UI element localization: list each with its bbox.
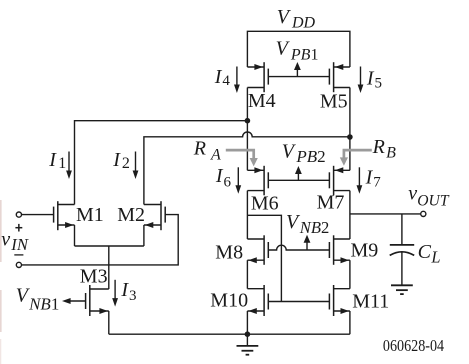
- svg-text:V: V: [282, 140, 297, 162]
- ground symbol (main): [237, 334, 259, 355]
- svg-text:M10: M10: [210, 290, 248, 312]
- wire M2 source to tail node: [143, 225, 145, 246]
- transistor M4 (PMOS current source): [247, 62, 268, 92]
- label CL: [418, 241, 441, 267]
- svg-text:C: C: [418, 241, 432, 263]
- svg-text:5: 5: [375, 76, 383, 92]
- wire M11 source to ground rail: [349, 311, 351, 334]
- svg-text:I: I: [48, 149, 57, 171]
- label I2: [112, 149, 130, 172]
- transistor M9 (NMOS cascode): [329, 235, 350, 264]
- svg-text:M1: M1: [76, 204, 104, 226]
- wire M1 gate to + input: [22, 214, 54, 216]
- svg-text:R: R: [193, 138, 206, 160]
- wire vOUT to CL: [401, 214, 403, 245]
- wire node B to M7 source: [349, 137, 351, 170]
- transistor M8 (NMOS cascode): [247, 235, 268, 264]
- label I5: [366, 68, 382, 92]
- label I6: [215, 165, 232, 191]
- minus sign: [14, 254, 23, 256]
- svg-text:v: v: [1, 228, 10, 250]
- label RA: [193, 138, 221, 164]
- current arrow I4: [234, 67, 240, 94]
- wire M10 source to ground rail: [246, 311, 248, 334]
- wire mirror-gate branch (node A2 to M10/M11 gates): [247, 215, 281, 301]
- wire M10-M11 gate line: [268, 301, 329, 303]
- svg-text:L: L: [430, 248, 440, 267]
- node B junction dot: [347, 134, 353, 140]
- current arrow I1: [66, 152, 72, 180]
- current arrow I3: [112, 280, 118, 307]
- capacitor CL: [390, 245, 415, 285]
- wire M9 source to M11 drain: [349, 260, 351, 289]
- decorative scan edge: [0, 200, 2, 364]
- svg-text:M4: M4: [248, 90, 276, 112]
- label I1: [48, 149, 66, 172]
- transistor M3 (NMOS tail current source): [86, 285, 109, 316]
- terminal vIN+: [16, 212, 21, 217]
- svg-text:A: A: [210, 146, 221, 163]
- svg-text:060628-04: 060628-04: [383, 336, 444, 355]
- svg-text:IN: IN: [10, 235, 29, 254]
- bias arrow VPB1: [294, 62, 301, 77]
- svg-text:7: 7: [373, 175, 381, 191]
- label I3: [120, 279, 136, 304]
- label vIN: [1, 228, 29, 254]
- label RB: [372, 136, 397, 162]
- wire node A to M6 source: [246, 121, 248, 171]
- wire output node to vOUT terminal: [350, 213, 421, 215]
- svg-text:OUT: OUT: [417, 193, 450, 210]
- gray arrow RA: [226, 150, 258, 166]
- ground rail: [109, 333, 350, 335]
- svg-text:I: I: [112, 149, 121, 171]
- wire M8-M9 gate line (hops over mirror branch): [268, 245, 329, 250]
- svg-text:PB2: PB2: [295, 147, 325, 166]
- svg-text:M6: M6: [251, 193, 279, 215]
- node A junction dot: [245, 118, 251, 124]
- transistor M11 (NMOS mirror): [329, 285, 350, 316]
- transistor M5 (PMOS current source): [329, 62, 350, 92]
- transistor M10 (NMOS mirror): [247, 285, 268, 316]
- ground symbol (CL): [391, 285, 413, 294]
- svg-text:M8: M8: [215, 241, 243, 263]
- wire M1 drain to node A: [75, 121, 248, 205]
- label I7: [365, 167, 382, 191]
- wire M3 source to ground rail: [108, 311, 110, 334]
- svg-text:M7: M7: [317, 191, 345, 213]
- svg-text:NB2: NB2: [299, 218, 330, 237]
- label VNB2: [286, 211, 329, 237]
- wire M1 source to tail node: [74, 225, 76, 246]
- svg-text:3: 3: [129, 288, 137, 304]
- svg-text:M5: M5: [320, 90, 348, 112]
- gray arrow RB: [340, 150, 372, 166]
- wire M4-M5 gate line: [268, 76, 329, 78]
- wire M6-M7 gate line: [268, 179, 329, 181]
- transistor M1 (NMOS input): [54, 201, 75, 230]
- transistor M2 (NMOS input): [144, 201, 165, 230]
- wire M5 drain to node B: [349, 88, 351, 138]
- ground junction dot: [245, 331, 251, 337]
- current arrow I7: [357, 167, 363, 193]
- bias arrow VNB1 (M3 gate): [62, 298, 86, 304]
- terminal vIN-: [16, 262, 21, 267]
- svg-text:2: 2: [122, 155, 130, 172]
- svg-text:B: B: [386, 145, 396, 162]
- wire M2 drain to node B (hops over left column): [144, 132, 350, 204]
- wire tail node to M3 drain: [108, 246, 110, 289]
- current arrow I2: [133, 152, 139, 180]
- svg-text:PB1: PB1: [290, 46, 319, 63]
- label I4: [214, 66, 231, 89]
- svg-text:V: V: [276, 38, 291, 60]
- wire M4 drain to node A: [246, 88, 248, 121]
- svg-text:4: 4: [222, 73, 230, 89]
- wire M8 source to M10 drain: [246, 260, 248, 289]
- current arrow I6: [235, 167, 241, 193]
- label VDD: [277, 6, 316, 32]
- terminal vOUT: [421, 211, 426, 216]
- bias arrow VNB2: [304, 235, 311, 250]
- label VNB1: [16, 285, 60, 314]
- wire M2 gate to - input: [22, 215, 179, 265]
- svg-text:NB1: NB1: [28, 294, 59, 313]
- svg-text:DD: DD: [291, 15, 316, 32]
- transistor M6 (PMOS cascode): [247, 166, 268, 196]
- svg-text:R: R: [372, 136, 385, 158]
- label VPB1: [276, 38, 319, 64]
- svg-text:M2: M2: [117, 204, 145, 226]
- svg-text:M11: M11: [352, 291, 389, 313]
- svg-text:V: V: [277, 6, 292, 28]
- wire M7 drain to M9 drain: [349, 191, 351, 239]
- bias arrow VPB2: [295, 166, 302, 180]
- transistor M7 (PMOS cascode): [329, 166, 350, 196]
- label VPB2: [282, 140, 326, 166]
- wire tail node: [75, 245, 144, 247]
- svg-text:v: v: [408, 183, 417, 205]
- plus sign: [15, 224, 22, 232]
- VDD power rail: [247, 31, 350, 67]
- svg-text:V: V: [286, 211, 301, 233]
- wire M6 drain to M8 drain: [246, 191, 248, 239]
- svg-text:1: 1: [58, 155, 66, 172]
- label vOUT: [408, 183, 450, 210]
- svg-text:M9: M9: [351, 240, 379, 262]
- svg-text:6: 6: [224, 175, 232, 191]
- svg-text:M3: M3: [80, 266, 108, 288]
- current arrow I5: [358, 67, 364, 94]
